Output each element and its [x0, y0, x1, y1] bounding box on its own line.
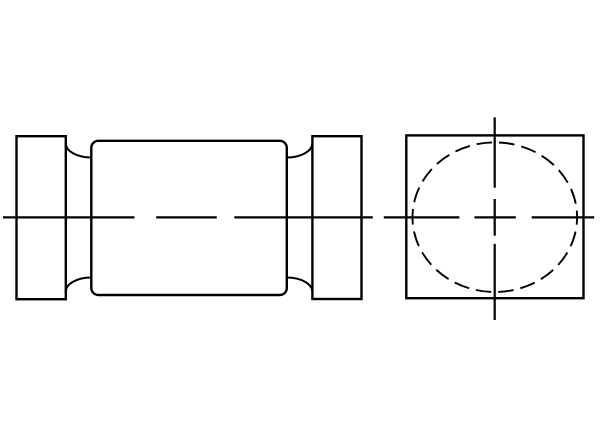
- horizontal centerline segment 2 (end view): [475, 216, 516, 218]
- vertical centerline segment 1 (end view): [494, 117, 496, 187]
- horizontal centerline segment 2 (side view): [156, 216, 217, 218]
- left terminal cap (side view): [17, 136, 66, 299]
- horizontal centerline segment 1 (end view): [384, 216, 460, 218]
- horizontal centerline segment 3 (end view): [532, 216, 595, 218]
- horizontal centerline segment 3 (side view): [234, 216, 372, 218]
- vertical centerline segment 2 (end view): [494, 199, 496, 236]
- end view outline square: [406, 135, 583, 298]
- component body (side view): [91, 141, 286, 295]
- fillet curve bottom-left: [66, 278, 92, 292]
- fillet curve top-right: [287, 144, 312, 158]
- end view dashed circle: [413, 142, 578, 292]
- vertical centerline segment 3 (end view): [494, 244, 496, 320]
- fillet curve bottom-right: [287, 278, 312, 292]
- fillet curve top-left: [66, 144, 92, 158]
- right terminal cap (side view): [312, 136, 361, 299]
- horizontal centerline segment 1 (side view): [3, 216, 135, 218]
